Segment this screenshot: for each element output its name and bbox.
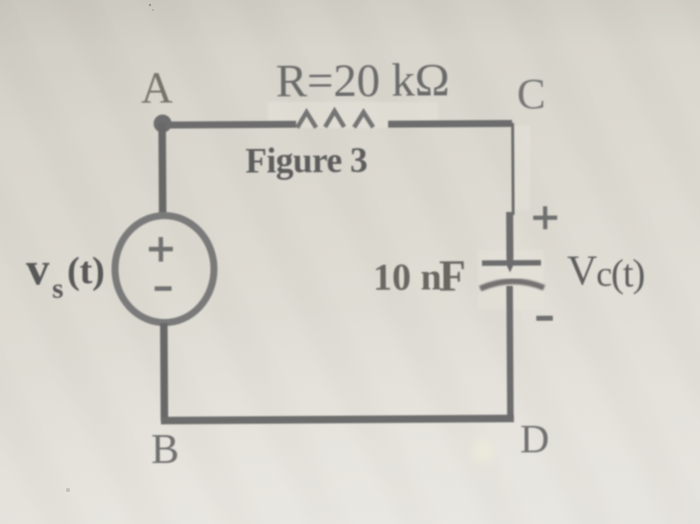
svg-text:s: s <box>52 273 63 305</box>
minus sign inside source <box>155 286 172 291</box>
capacitor C1 bottom curved plate <box>480 281 544 289</box>
wire: node A down to source top <box>158 123 166 215</box>
capacitor C1 top plate <box>482 260 541 266</box>
svg-text:A: A <box>141 63 173 112</box>
capacitor lead tip through plate <box>506 255 513 273</box>
wire: source bottom to node B corner <box>160 323 168 420</box>
wire: resistor to node C corner <box>388 120 512 128</box>
wire: top, node A to resistor <box>162 121 296 129</box>
voltage source V1 circle <box>115 215 215 323</box>
svg-text:Figure 3: Figure 3 <box>245 140 367 181</box>
wire: capacitor top lead <box>506 212 513 257</box>
svg-text:(t): (t) <box>67 250 105 292</box>
svg-text:D: D <box>520 416 550 461</box>
svg-text:R=20 kΩ: R=20 kΩ <box>276 54 450 107</box>
wire: right thin segment C down <box>511 123 514 215</box>
svg-text:10 n: 10 n <box>373 256 442 298</box>
resistor R1 zigzag peaks <box>297 111 373 128</box>
minus sign near capacitor <box>536 316 552 321</box>
node A junction dot <box>154 115 172 133</box>
wire: bottom, B to D <box>161 418 514 420</box>
svg-text:C: C <box>517 71 546 118</box>
wire: capacitor bottom lead down to D <box>506 286 513 419</box>
svg-text:Vc(t): Vc(t) <box>567 248 645 295</box>
svg-text:F: F <box>439 251 466 300</box>
svg-text:v: v <box>26 243 50 295</box>
plus sign inside source <box>149 237 173 262</box>
plus sign near capacitor <box>533 206 557 229</box>
svg-text:B: B <box>151 427 179 473</box>
